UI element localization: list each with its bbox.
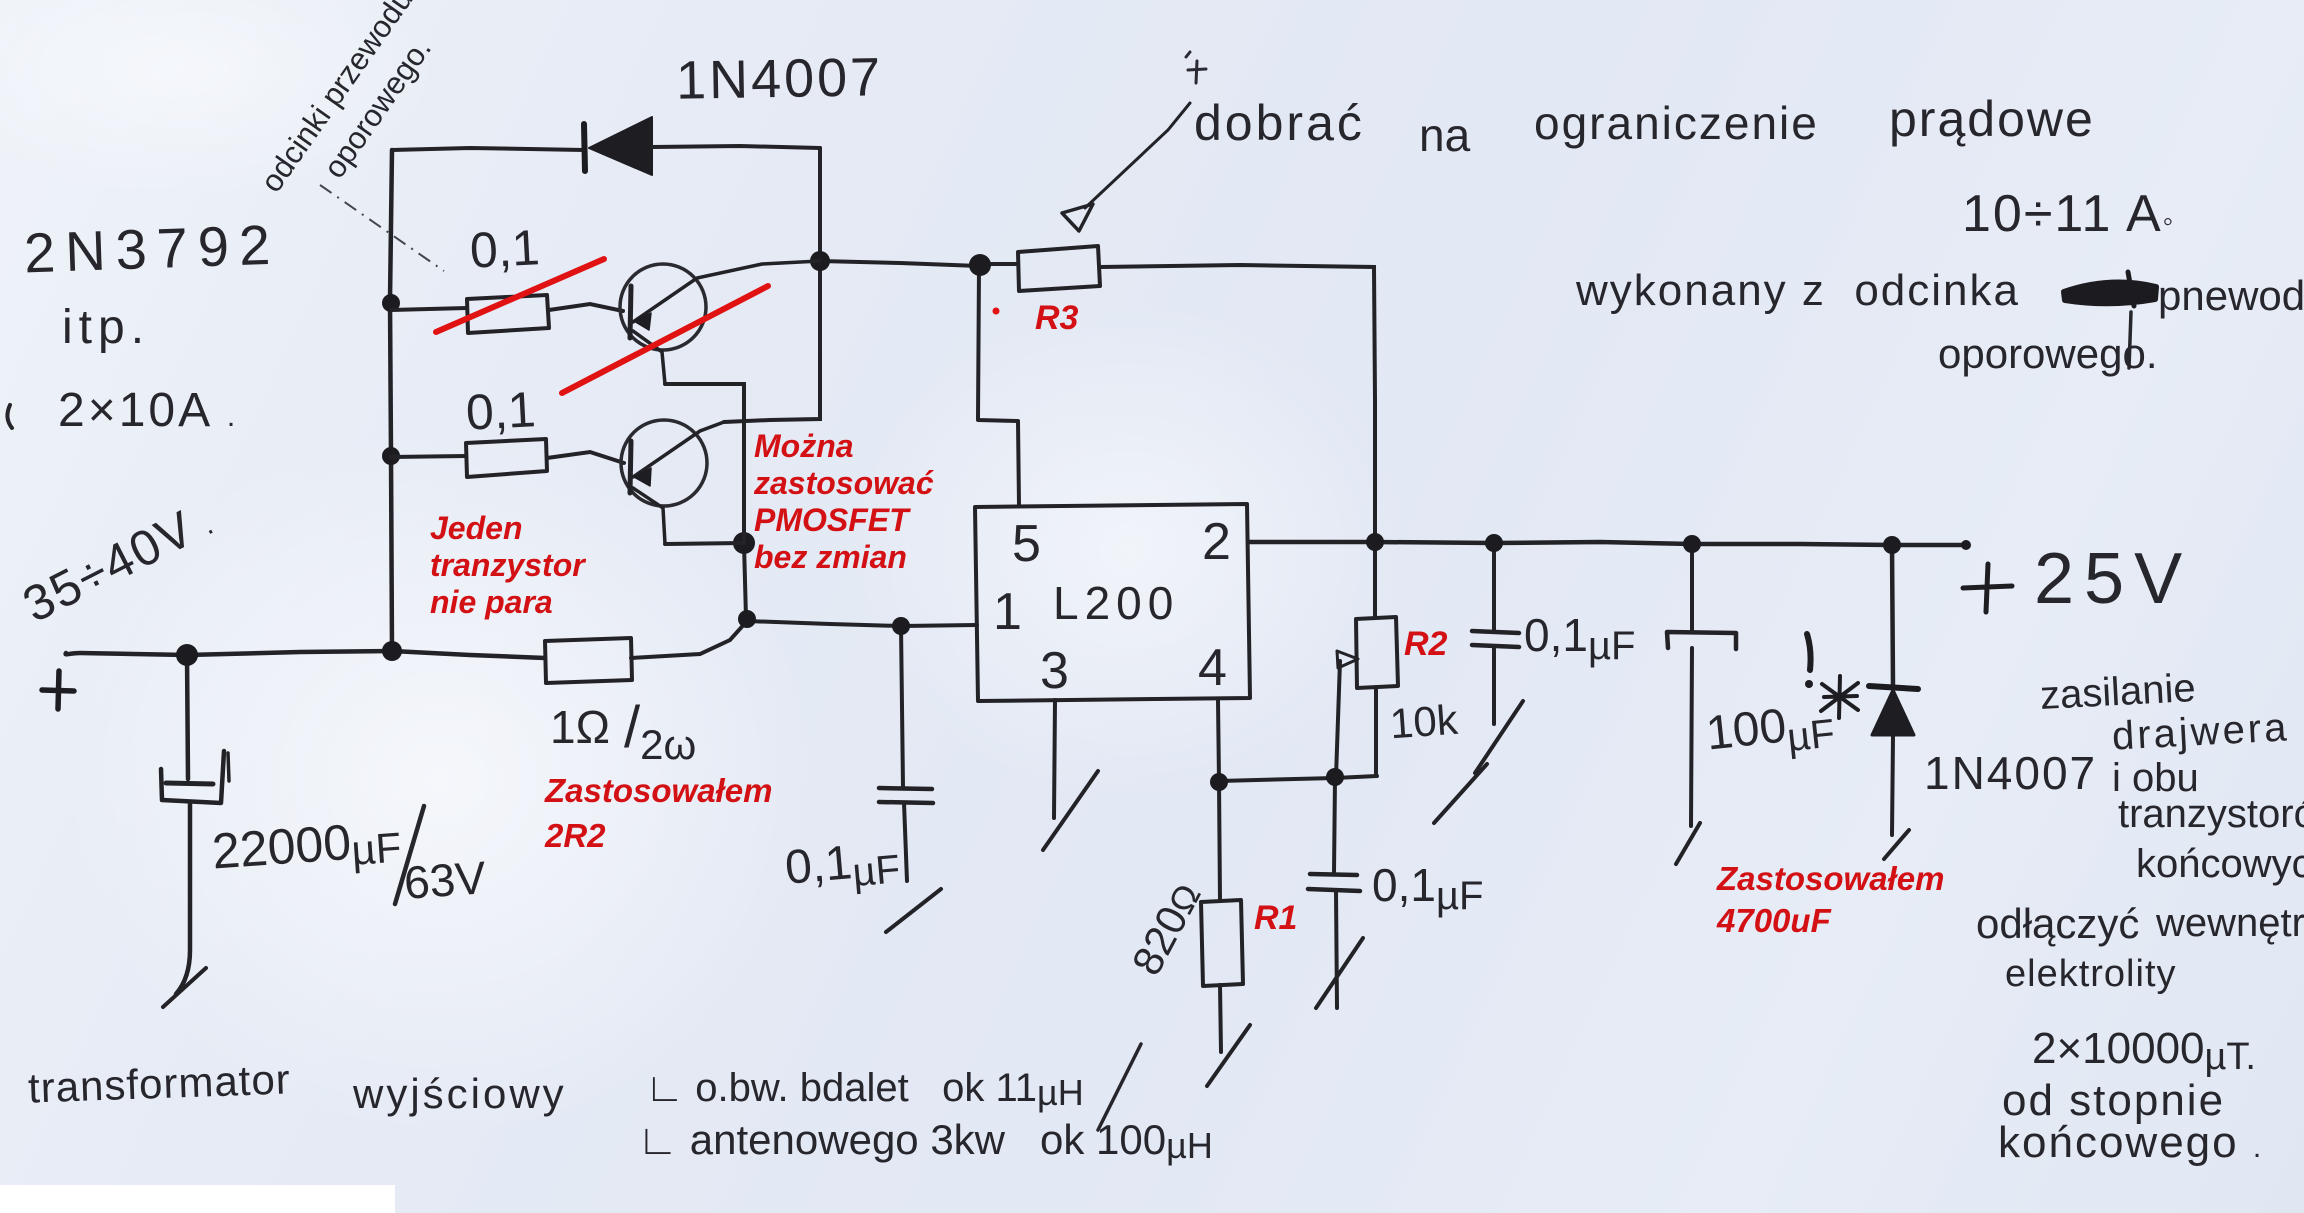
note od stopnie — [2002, 1076, 2225, 1126]
wire R2 bottom lead — [1374, 687, 1378, 776]
note L obw bdalet ok 11uH — [645, 1066, 1084, 1111]
wire R2 wiper drop — [1336, 661, 1340, 777]
wire C1 top lead — [187, 655, 188, 779]
pin number 4 — [1198, 638, 1227, 698]
node output C5 junction — [1485, 534, 1503, 552]
note ograniczenie — [1534, 96, 1819, 150]
ground slash under C2 — [886, 889, 941, 932]
red note R3 — [1035, 299, 1078, 338]
pin number 1 — [993, 582, 1022, 642]
wire bottom net pin4-R2 — [1219, 776, 1377, 781]
diode D1 1N4007 — [584, 117, 652, 175]
wire C5 bottom lead — [1492, 647, 1496, 724]
wire L200 pin 3 lead — [1054, 700, 1055, 818]
wire D2 bottom lead — [1892, 736, 1893, 835]
wire left input rail — [390, 150, 392, 651]
resistor R1 820ohm — [1201, 900, 1243, 986]
node output end dot — [1961, 540, 1971, 550]
small plus mark top — [1186, 52, 1206, 83]
potentiometer R2 10k — [1337, 617, 1398, 688]
node emitter resistor 1 tap — [382, 294, 400, 312]
node pin4 junction — [1210, 773, 1228, 791]
note drajwera — [2111, 705, 2291, 759]
wire collectors junction drop — [744, 544, 746, 618]
note wyjsciowy — [353, 1070, 567, 1118]
wire C6 bottom lead — [1691, 648, 1692, 826]
wire C4 bottom lead — [1336, 891, 1337, 1008]
wire C6 top lead — [1690, 544, 1694, 631]
note tranzystorow — [2118, 792, 2304, 837]
value label 0,1uF near C4 — [1372, 858, 1483, 912]
value label 1ohm/2W — [550, 690, 696, 757]
capacitor C2 0.1uF plates — [879, 788, 933, 803]
ground slash under D2 — [1884, 830, 1909, 859]
wire R3 rail left — [820, 261, 979, 266]
note na — [1419, 108, 1470, 162]
node collector-bus junction — [738, 610, 756, 628]
wire R1 bottom lead — [1220, 985, 1221, 1052]
wire bus to L200 pin 1 — [631, 621, 977, 658]
ground slashes under C5 — [1434, 701, 1523, 823]
red note Mozna zastosowac PMOSFET bez zmian — [754, 428, 934, 576]
note pradowe — [1889, 90, 2095, 148]
plus sign output — [1963, 564, 2012, 612]
wire top diode rail right — [652, 146, 820, 148]
note 10-11 A — [1962, 184, 2175, 244]
note oporowego — [1938, 330, 2158, 378]
wire R3 to output drop — [1100, 265, 1375, 542]
part label 2N3792 — [23, 212, 281, 286]
red note Zastosowalem 2R2 — [545, 768, 772, 858]
wire R2 top lead — [1373, 542, 1377, 618]
note wykonany z odcinka — [1576, 266, 2020, 316]
red note R2 — [1404, 625, 1447, 664]
capacitor C1 22000uF electrolytic — [161, 751, 229, 803]
node output D2 junction — [1883, 536, 1901, 554]
note itp. — [62, 300, 150, 355]
note odlaczyc — [1976, 900, 2139, 948]
capacitor C6 100uF electrolytic — [1667, 632, 1736, 649]
note koncowych — [2136, 842, 2304, 887]
ground slash under C1 — [163, 968, 206, 1007]
note zasilanie — [2039, 666, 2197, 719]
red dot mark — [993, 308, 1000, 315]
node input rail junction — [382, 641, 402, 661]
wire Q1 collector run — [665, 384, 744, 543]
resistor RE1 0.1 — [391, 295, 623, 333]
curly bracket before 2x10A — [7, 405, 12, 428]
pin number 2 — [1202, 512, 1231, 572]
note elektrolity — [2005, 953, 2177, 996]
pin number 5 — [1012, 514, 1041, 574]
node pin1-C2 junction — [892, 617, 910, 635]
wire input bus — [66, 651, 545, 658]
wire L200 pin 5 riser — [978, 267, 1019, 506]
transistor Q2 2N3792 — [621, 420, 724, 544]
wire L200 pin 4 lead — [1218, 700, 1219, 781]
resistor R3 — [1018, 246, 1100, 291]
diagonal note odcinki przewodu — [254, 0, 421, 199]
plus sign input — [42, 671, 74, 709]
ground slash under R1 — [1207, 1025, 1250, 1086]
wire C2 top lead — [901, 626, 903, 787]
wire node to R3 box — [990, 262, 1018, 266]
capacitor C5 0.1uF plates — [1472, 631, 1519, 647]
IC U1 L200 box — [975, 504, 1250, 701]
note 35-40V input voltage — [14, 489, 223, 634]
value label 1N4007 right diode — [1924, 746, 2097, 800]
wire C2 bottom lead — [904, 803, 907, 881]
IC label L200 — [1053, 576, 1179, 630]
ground slash under pin 3 — [1043, 771, 1098, 850]
value label 820ohm rotated — [1123, 875, 1211, 983]
value label 0,1uF near C2 — [783, 831, 902, 896]
note L antenowego 3kw ok 100uH — [637, 1116, 1213, 1164]
note koncowego — [1998, 1118, 2263, 1168]
exclamation mark near 100uF — [1805, 634, 1813, 688]
note 2x10000uF — [2032, 1024, 2256, 1074]
value label 0,1 lower — [465, 380, 537, 442]
note transformator — [27, 1055, 291, 1112]
diagonal note oporowego — [317, 32, 439, 185]
wire C5 top lead — [1492, 543, 1496, 631]
slash in label 22000uF/63V — [395, 806, 424, 904]
transistor Q1 2N3792 — [620, 261, 820, 384]
wire emitter rail x820 — [724, 148, 820, 422]
note i obu — [2112, 756, 2199, 801]
note 2x10A — [58, 383, 238, 438]
value label 1N4007 top diode — [675, 46, 883, 112]
value label 63V — [402, 850, 487, 910]
wire output bus — [1250, 542, 1962, 545]
leader dash line from note to RE1 — [320, 185, 444, 271]
capacitor C4 0.1uF plates — [1308, 874, 1360, 891]
red note Zastosowalem 4700uF — [1717, 858, 1944, 942]
pin number 3 — [1040, 641, 1069, 701]
red crossout line B — [562, 286, 768, 393]
ground slash under C4 — [1316, 938, 1363, 1008]
note przewodu — [2158, 272, 2304, 320]
ground slash under C6 — [1676, 823, 1700, 864]
output voltage label 25V — [2034, 538, 2192, 620]
leader arrow to R3 — [1062, 103, 1190, 231]
note wewnetrzne — [2156, 901, 2304, 946]
node R3 left junction — [969, 254, 991, 276]
node emitter resistor 2 tap — [382, 447, 400, 465]
resistor R4 1ohm 2W — [545, 638, 632, 683]
resistor RE2 0.1 — [391, 439, 624, 477]
wire D2 top lead — [1892, 545, 1893, 685]
node input capacitor junction — [176, 644, 198, 666]
value label 0,1 upper — [469, 218, 541, 280]
diode D2 1N4007 — [1869, 686, 1918, 735]
flourish stroke through 11uH — [1098, 1044, 1141, 1130]
value label 100uF near C6 — [1703, 693, 1836, 761]
asterisk mark near 100uF — [1821, 676, 1858, 718]
node collectors junction — [733, 532, 755, 554]
wire Q2 collector run — [665, 543, 744, 544]
value label 22000uF/63V — [210, 809, 402, 880]
node output C6 junction — [1683, 535, 1701, 553]
wire top diode rail left — [392, 148, 584, 150]
wire C1 bottom lead — [176, 804, 190, 994]
wire C4 top lead — [1334, 778, 1335, 873]
node wiper-C4 junction — [1326, 768, 1344, 786]
value label 0,1uF near C5 — [1524, 608, 1635, 662]
red crossout line A — [436, 259, 604, 332]
scribble blackout word — [2064, 272, 2156, 306]
value label 10k — [1388, 696, 1459, 749]
exclamation stroke after oporowego — [2129, 312, 2131, 368]
wire R1 top lead — [1219, 782, 1220, 901]
red note Jeden tranzystor nie para — [430, 510, 585, 621]
red note R1 — [1254, 899, 1297, 938]
note dobrac — [1194, 94, 1365, 152]
node diode-emitter junction — [810, 251, 830, 271]
node output R2 junction — [1366, 533, 1384, 551]
